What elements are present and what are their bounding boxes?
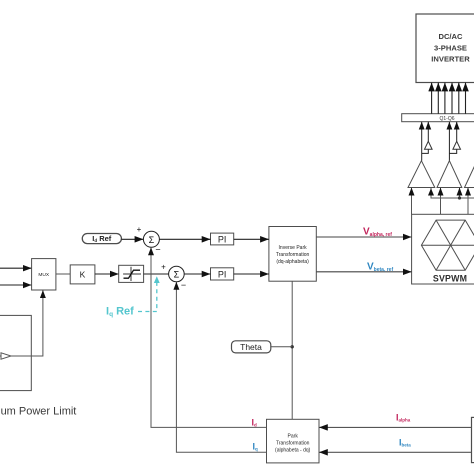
svg-text:(dq-alphabeta): (dq-alphabeta)	[276, 259, 309, 265]
block U1: DC/AC 3-PHASE INVERTER	[416, 14, 474, 83]
svg-text:K: K	[80, 269, 86, 279]
svg-text:−: −	[181, 280, 186, 290]
svg-text:Σ: Σ	[149, 235, 155, 245]
wire: Id feedback from Park to S1	[151, 247, 267, 427]
wire: theta from Inverse Park to Park	[291, 281, 293, 419]
block MUX	[32, 259, 56, 290]
block PI2	[211, 268, 234, 280]
wire: power limit output to MUX	[0, 290, 43, 356]
driver phase B wires up to bar	[449, 122, 456, 161]
svg-text:Transformation: Transformation	[276, 441, 310, 447]
summing junction S2	[161, 263, 186, 291]
node: theta junction	[291, 345, 294, 348]
svg-text:Q1-Q6: Q1-Q6	[439, 116, 454, 122]
ref box: Id Ref	[82, 234, 121, 244]
wire: Iq feedback from Park to S2	[176, 282, 266, 453]
svg-text:PI: PI	[218, 270, 227, 280]
wire: SVPWM outputs up into driver amps	[412, 188, 469, 215]
svg-text:Σ: Σ	[174, 270, 180, 280]
wire: S2 to PI2	[184, 273, 210, 275]
svg-text:Transformation: Transformation	[276, 252, 310, 258]
svg-text:3-PHASE: 3-PHASE	[434, 44, 467, 53]
svg-text:Theta: Theta	[240, 342, 262, 352]
driver amp A1 (big triangle)	[408, 161, 435, 188]
wire: PI1 to Inverse Park	[234, 238, 269, 240]
summing junction S1	[137, 225, 161, 255]
wire: I_alpha into Park	[319, 426, 472, 428]
driver phase A wires up to bar	[422, 122, 429, 161]
block U3: Inverse Park Transformation	[269, 227, 316, 282]
wire: Theta box to theta line	[271, 346, 292, 348]
svg-text:(alphabeta - dq): (alphabeta - dq)	[275, 448, 311, 454]
driver amp A2 (big triangle)	[437, 161, 462, 188]
wire: K to limiter	[95, 273, 119, 275]
svg-text:INVERTER: INVERTER	[431, 55, 470, 64]
wire: driver second-input bus	[431, 188, 474, 199]
symbol: SVPWM hexagon	[421, 220, 474, 270]
inverter gate N1 (small triangle phase A)	[425, 141, 433, 149]
block: maximum power limit (clipped left)	[0, 315, 31, 390]
inverter gate N2 (small triangle phase B)	[453, 141, 461, 149]
svg-text:DC/AC: DC/AC	[438, 32, 463, 41]
block K	[70, 265, 95, 284]
junction dot	[458, 196, 461, 199]
svg-text:Park: Park	[288, 434, 299, 440]
ref box: Theta	[232, 341, 271, 353]
arrowheads for bus inputs	[428, 188, 434, 195]
wire: PI2 to Inverse Park	[234, 273, 269, 275]
svg-text:MUX: MUX	[38, 272, 49, 278]
wire: I_beta into Park	[319, 451, 472, 453]
svg-text:+: +	[137, 225, 142, 234]
wire: limiter to S2 (Iq ref signal)	[144, 273, 169, 275]
driver amp A3 (big triangle, clipped)	[465, 161, 474, 188]
block U2: SVPWM	[412, 214, 474, 284]
annotation: Iq Ref label with dashed cyan arrow	[106, 276, 160, 318]
wire: Id Ref to S1	[121, 238, 143, 240]
block U4: Park Transformation	[267, 419, 320, 463]
svg-text:PI: PI	[218, 235, 227, 245]
wire: V_alpha_ref to SVPWM	[316, 236, 411, 238]
wire: S1 to PI1	[159, 238, 210, 240]
svg-text:−: −	[155, 245, 160, 255]
block: current sensor bus (right edge)	[472, 417, 474, 462]
block PI1	[211, 233, 234, 245]
wire: inputs into MUX	[0, 267, 32, 269]
wire: gate arrows Q1..Q6 into inverter	[432, 83, 466, 114]
bus: Q1-Q6 gate signal bar	[402, 114, 474, 122]
svg-text:Inverse Park: Inverse Park	[279, 245, 308, 251]
block: saturation limiter	[119, 265, 144, 282]
symbol: open arrowhead on power limit output	[1, 353, 11, 359]
svg-text:mum Power Limit: mum Power Limit	[0, 406, 76, 418]
wire: V_beta_ref to SVPWM	[316, 271, 411, 273]
svg-text:SVPWM: SVPWM	[433, 274, 467, 284]
wire: MUX to K	[56, 273, 70, 275]
svg-text:+: +	[161, 263, 166, 272]
